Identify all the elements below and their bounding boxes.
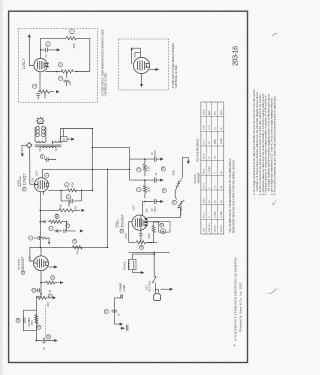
- svg-text:Tube: Tube: [204, 227, 206, 233]
- svg-text:12SL7GT: 12SL7GT: [209, 222, 211, 232]
- primary winding L1: [36, 127, 40, 131]
- svg-text:HTR: HTR: [204, 125, 206, 130]
- border frame: [9, 11, 248, 362]
- plate rail: [42, 168, 129, 170]
- svg-text:RECT: RECT: [221, 108, 223, 115]
- ref circle C1: [46, 42, 51, 47]
- interlock switch: [153, 277, 156, 283]
- svg-text:100V: 100V: [133, 205, 135, 211]
- svg-text:203-16: 203-16: [232, 46, 239, 66]
- voltage chart grid: [201, 102, 224, 234]
- cathode branch: wire down from tube: [39, 72, 41, 92]
- dashed can boundary: [45, 305, 47, 337]
- checkmark pencil: [272, 201, 276, 206]
- svg-text:1.7NEG: 1.7NEG: [209, 166, 211, 174]
- bottom rail of output stage: [129, 251, 170, 253]
- table cell entries: [204, 108, 224, 232]
- tube V1 12SQ7: [34, 178, 48, 192]
- secondary winding L2: [53, 141, 63, 143]
- svg-text:470K: 470K: [74, 43, 76, 49]
- svg-text:.005: .005: [70, 81, 72, 86]
- svg-text:.005: .005: [75, 205, 77, 210]
- svg-text:Pin 2: Pin 2: [204, 212, 206, 218]
- svg-text:OUTPUT: OUTPUT: [195, 173, 197, 183]
- cathode down wire: [40, 271, 42, 297]
- filter cap C10 with arrow: [130, 178, 162, 183]
- dropping resistor R13 vertical: [143, 159, 146, 176]
- tube V3 35Z5GT: [34, 256, 49, 271]
- wire down with arrow: [141, 74, 143, 85]
- cathode resistor R26: [135, 241, 153, 244]
- resistor R5 plate load: [67, 189, 76, 192]
- svg-text:270V: 270V: [126, 233, 128, 239]
- ref circle C34: [16, 318, 20, 322]
- crystal cartridge dashed enclosure: [119, 39, 169, 90]
- line bypass cap: [121, 294, 123, 298]
- svg-text:AMP: AMP: [208, 110, 211, 115]
- ref circle R21: [172, 200, 176, 204]
- svg-text:100 MFD: 100 MFD: [29, 317, 31, 327]
- stray pencil mark: [273, 33, 278, 36]
- resistor R16 on ground rail: [72, 246, 82, 249]
- svg-text:50L6GT: 50L6GT: [120, 213, 124, 227]
- hum cap bracket: [114, 295, 121, 324]
- cap C31: [32, 288, 36, 292]
- svg-text:12SL7: 12SL7: [22, 59, 26, 70]
- output takeoff corner with arrow: [182, 158, 188, 163]
- power takeoff wire with arrow: [161, 288, 172, 290]
- grid branch R4 1 MEG: [40, 210, 42, 212]
- stray arrow and cap bottom left: [120, 327, 123, 329]
- svg-text:150V: 150V: [37, 170, 39, 176]
- grid input wire with up arrow: [29, 37, 34, 66]
- screen resistor R24 vertical: [152, 225, 155, 235]
- on-off switch on volume control: [128, 259, 136, 269]
- alternate input circuit dashed enclosure: [19, 29, 98, 103]
- svg-text:Pin 5: Pin 5: [204, 168, 206, 174]
- svg-text:Pin 4: Pin 4: [204, 183, 206, 189]
- cathode stub left: [129, 222, 136, 243]
- svg-text:THE CALIBRATION OF THE MEA: THE CALIBRATION OF THE MEASUREMENTS OF T…: [229, 158, 232, 233]
- ref circle 1 at rail corner: [45, 173, 49, 177]
- transformer core: [35, 145, 62, 147]
- svg-text:500K: 500K: [57, 213, 59, 219]
- plate wire with arrow: [48, 266, 55, 268]
- svg-text:MADE FROM THE B VOLTAGE S: MADE FROM THE B VOLTAGE SUPPLY FOR THIS …: [233, 160, 236, 233]
- coupling capacitor C1: [40, 49, 42, 51]
- wire tube top to plate rail: [41, 169, 43, 178]
- svg-text:Pin 3: Pin 3: [204, 197, 206, 203]
- cap C12 with arrow: [145, 199, 161, 204]
- output cap C36: [36, 340, 38, 342]
- tube V1 alternate 12SL7: [34, 58, 49, 71]
- svg-text:600V: 600V: [155, 150, 157, 156]
- resistor R17 vertical: [143, 180, 146, 198]
- svg-text:NOTE: NOTE: [204, 108, 206, 115]
- svg-text:470K: 470K: [73, 182, 75, 188]
- svg-text:--: --: [221, 157, 223, 159]
- caption: AT AMP CIRCUIT USED WHEN CHANGER CARTRIDGE IS USED: [101, 29, 107, 96]
- plate wire right to feedback node: [147, 207, 180, 217]
- mid wire with plate resistor: [45, 71, 90, 73]
- coupling cap branch: [54, 222, 76, 233]
- svg-text:90V: 90V: [146, 208, 148, 213]
- service notes list: [252, 89, 276, 195]
- svg-text:NC: NC: [215, 155, 217, 159]
- wire down to V2 grid: [142, 202, 145, 216]
- grid input wire from cartridge: [30, 158, 35, 185]
- svg-text:470K: 470K: [174, 170, 176, 176]
- tube V2 alternate: [133, 57, 149, 73]
- pilot lamp A: [38, 118, 43, 123]
- svg-text:ON VOL: ON VOL: [125, 261, 127, 270]
- tap label W: [63, 129, 65, 137]
- cartridge diamond node: [26, 143, 32, 148]
- svg-text:©Howard W. Sams & Co., Inc. 19: ©Howard W. Sams & Co., Inc. 1953: [239, 283, 243, 332]
- feedback resistor R20 diagonal: [175, 179, 181, 191]
- svg-text:35Z5GT: 35Z5GT: [221, 224, 223, 233]
- rail to filter column: [92, 148, 129, 181]
- svg-text:CARTRIDGE IS USED: CARTRIDGE IS USED: [175, 65, 178, 89]
- svg-text:2.2K: 2.2K: [149, 166, 151, 171]
- wire tube plate right: [48, 189, 92, 191]
- coupling loop with capacitor C6: [61, 190, 82, 201]
- svg-text:470K: 470K: [149, 233, 151, 239]
- switch wiper arrow: [136, 272, 142, 274]
- wire: tube top to upper rail: [41, 38, 65, 58]
- svg-text:CARTRIDGE IS USED: CARTRIDGE IS USED: [105, 73, 108, 97]
- svg-text:50L6GT: 50L6GT: [215, 224, 217, 233]
- svg-text:117V: 117V: [146, 285, 148, 291]
- svg-text:6. All controls at minimum, p: 6. All controls at minimum, proper outpu…: [272, 96, 276, 196]
- svg-text:AT AMP CIRCUIT USED WHEN CHANG: AT AMP CIRCUIT USED WHEN CHANGER: [172, 43, 175, 88]
- output jack: [147, 221, 158, 223]
- cathode cap C25: [139, 215, 143, 242]
- svg-text:4700: 4700: [77, 249, 79, 255]
- svg-text:1ST AMP CIRCUIT USED WHEN RECO: 1ST AMP CIRCUIT USED WHEN RECORD CHANGER…: [101, 29, 104, 96]
- AC plug: [156, 283, 159, 293]
- svg-text:117V: 117V: [29, 256, 31, 262]
- ground rail to rectifier: [30, 244, 40, 263]
- svg-text:450V: 450V: [155, 206, 157, 212]
- bypass capacitor branch: [64, 72, 70, 87]
- B+ rail vertical: [91, 129, 93, 191]
- svg-text:1 MEG: 1 MEG: [69, 200, 71, 207]
- line rail down: [153, 252, 155, 277]
- caption: AT AMP CIRCUIT USED WHEN CHANGER CARTRIDGE IS USED: [172, 43, 178, 88]
- cathode chain vertical: [40, 191, 43, 243]
- surge resistor R30: [40, 282, 42, 284]
- electrolytic can outline: [23, 310, 36, 331]
- resistor R1 470K top: [64, 37, 82, 40]
- svg-text:VOLTAGE READINGS: VOLTAGE READINGS: [196, 138, 199, 162]
- svg-text:A PHOTOFACT STANDARD NOTATION: A PHOTOFACT STANDARD NOTATION SCHEMATIC: [233, 256, 237, 341]
- svg-text:SPEAKER: SPEAKER: [197, 172, 200, 183]
- pin arrow right: [150, 69, 157, 71]
- wire rail to V3 plate top: [40, 247, 42, 256]
- svg-text:60 CYCLE: 60 CYCLE: [149, 280, 151, 291]
- wire corner right side of box1: [82, 38, 90, 71]
- ref circle C20 with capacitor: [40, 155, 44, 159]
- small cap at cathode: [36, 94, 40, 100]
- screen feed vertical: [107, 169, 109, 247]
- wires upper left staircase: [132, 48, 141, 64]
- svg-text:48AC: 48AC: [214, 139, 217, 145]
- filter resistor R32: [36, 296, 51, 299]
- svg-text:470K: 470K: [45, 93, 47, 99]
- svg-text:220K: 220K: [149, 186, 151, 192]
- svg-text:470K: 470K: [61, 204, 63, 210]
- svg-text:7.5V: 7.5V: [32, 177, 34, 182]
- filter cap C9 with arrow: [130, 157, 162, 162]
- svg-text:150V: 150V: [32, 320, 34, 326]
- svg-text:CORD: CORD: [124, 284, 126, 291]
- svg-text:1200: 1200: [48, 301, 50, 307]
- electrolytic cap section A: [23, 318, 25, 324]
- svg-text:4.7 MEG: 4.7 MEG: [181, 206, 183, 215]
- cathode resistor R2: [38, 90, 54, 93]
- svg-text:12SQ7: 12SQ7: [21, 173, 26, 186]
- feedback resistor R22 diagonal: [178, 200, 185, 208]
- wire to on-off switch: [133, 254, 155, 259]
- svg-text:117AC: 117AC: [220, 137, 223, 144]
- svg-text:OUT: OUT: [215, 110, 217, 115]
- cathode resistor with ref: [29, 236, 33, 240]
- svg-text:POWER: POWER: [121, 282, 123, 291]
- svg-text:117AC: 117AC: [220, 211, 223, 218]
- svg-text:Pin 7: Pin 7: [204, 139, 206, 145]
- tube V2 50L6GT: [132, 215, 147, 230]
- bleeder resistor R35 vertical: [35, 315, 38, 325]
- svg-text:Pin 6: Pin 6: [204, 153, 206, 159]
- svg-text:117AC: 117AC: [214, 211, 217, 218]
- scan speck: [234, 345, 235, 346]
- tertiary winding L3: [40, 147, 56, 149]
- svg-text:35Z5GT: 35Z5GT: [21, 256, 25, 270]
- volume control branch R3 500K: [40, 221, 42, 223]
